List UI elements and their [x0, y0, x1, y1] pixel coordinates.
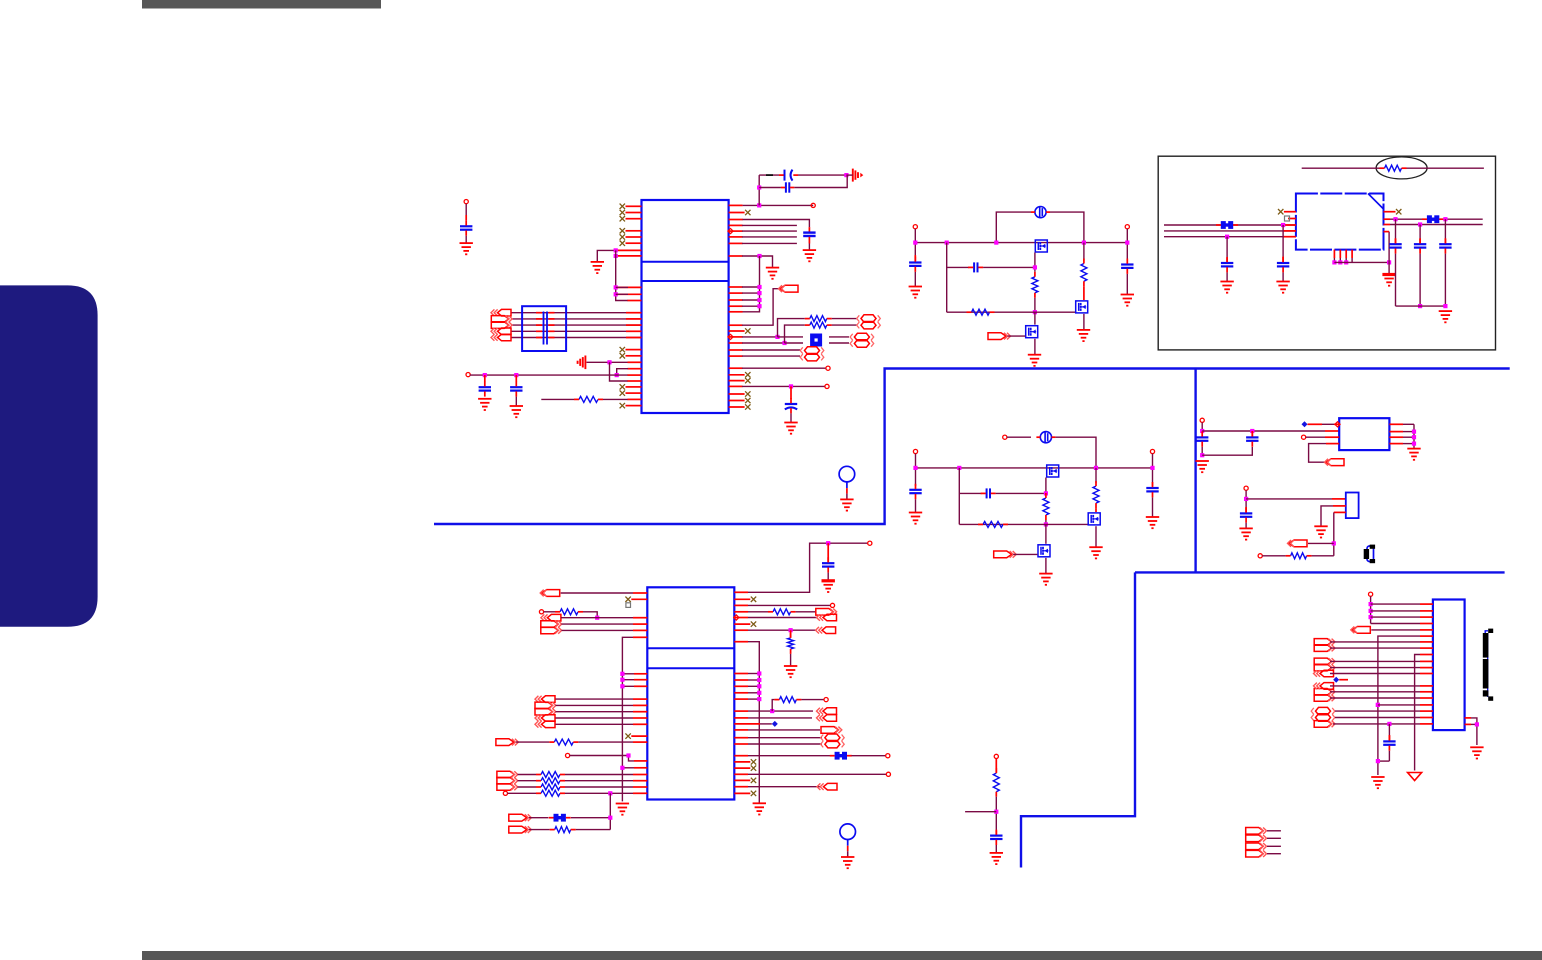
connector	[817, 708, 837, 715]
terminal	[566, 753, 570, 757]
wire wire	[748, 755, 830, 757]
capacitor C13	[981, 488, 996, 498]
wire wire	[965, 811, 996, 813]
ground	[990, 853, 1003, 864]
wire wire	[617, 369, 628, 375]
wire wire	[561, 592, 633, 594]
capacitor C5	[803, 233, 815, 244]
wire wire	[748, 629, 816, 631]
wire wire	[1267, 853, 1281, 855]
capacitor C12	[1146, 482, 1158, 497]
lead	[1083, 286, 1085, 300]
junction	[607, 360, 611, 364]
junction	[757, 697, 761, 701]
off-page flag	[540, 590, 560, 597]
wire wire	[748, 673, 759, 675]
wire wire	[801, 699, 824, 701]
wire wire	[1413, 424, 1415, 448]
U8 pin	[1465, 723, 1471, 725]
U1 no-connect pin L1	[620, 204, 642, 209]
cap lead	[1282, 257, 1284, 263]
U2 pin	[734, 685, 748, 687]
U5 pin	[1283, 236, 1296, 238]
wire wire	[1403, 431, 1414, 433]
terminal	[868, 541, 872, 545]
junction	[1332, 541, 1336, 545]
wire wire	[1371, 623, 1420, 625]
U1 pin	[616, 293, 642, 295]
cap lead	[1245, 507, 1247, 513]
resistor R13	[1286, 553, 1312, 559]
capacitor	[1439, 238, 1451, 253]
junction	[1387, 260, 1391, 264]
wire cap row	[959, 492, 981, 494]
U8 pin	[1420, 610, 1433, 612]
capacitor C6	[785, 398, 797, 413]
junction	[1200, 429, 1204, 433]
resistor R5	[805, 322, 832, 328]
U1 no-connect pin L3	[620, 216, 642, 221]
U1 pin	[628, 380, 642, 382]
connector	[1246, 850, 1267, 857]
connector	[821, 734, 845, 741]
wire wire	[742, 342, 785, 344]
U8 pin	[1420, 704, 1433, 706]
wire wire	[748, 729, 820, 731]
black tick	[766, 174, 773, 176]
wire wire	[748, 543, 868, 592]
U1 pin	[626, 318, 642, 320]
wire wire	[748, 737, 822, 739]
wire wire	[1403, 423, 1414, 425]
connector	[1311, 714, 1335, 721]
connector U8 body	[1433, 600, 1465, 731]
U1 no-connect pin	[729, 372, 751, 377]
U1 pin	[626, 337, 642, 339]
capacitor C19	[1196, 431, 1208, 446]
capacitor C20	[1246, 431, 1258, 446]
connector	[497, 784, 518, 791]
wire wire	[742, 242, 797, 244]
U1 section line	[642, 280, 729, 282]
junction	[789, 628, 793, 632]
junction	[615, 373, 619, 377]
ground	[784, 423, 797, 434]
U5 no-connect pin	[1384, 209, 1402, 214]
wire bus wire 3	[511, 324, 642, 326]
U2 pin	[633, 717, 647, 719]
connector	[817, 783, 837, 790]
wire wire	[610, 362, 629, 381]
U8 pin	[1420, 647, 1433, 649]
connector	[535, 696, 555, 703]
resistor	[536, 772, 565, 778]
U8 pin	[1420, 629, 1433, 631]
wire U2 left power bus	[622, 637, 633, 801]
wire wire	[778, 319, 805, 337]
wire wire	[748, 685, 759, 687]
ground	[1028, 355, 1041, 366]
capacitor C21	[1240, 507, 1252, 522]
U5 pin sq	[1285, 216, 1296, 221]
U2 pin	[633, 774, 647, 776]
U2 pin	[734, 729, 748, 731]
wire wire	[785, 325, 805, 343]
wire wire	[1246, 498, 1332, 500]
U1 pin	[729, 367, 743, 369]
chassis ground	[846, 169, 863, 182]
wire wire	[1330, 685, 1420, 687]
U6 pin	[1308, 423, 1323, 425]
terminal	[824, 698, 828, 702]
wire wire	[1403, 443, 1414, 445]
U1 no-connect pin	[729, 328, 751, 333]
ground	[1039, 574, 1052, 585]
ground	[1146, 517, 1159, 528]
wire wire	[1390, 224, 1483, 226]
connector	[817, 614, 837, 621]
side tab	[0, 285, 98, 626]
junction	[757, 285, 761, 289]
wire wire	[1371, 629, 1420, 631]
filter pin marks	[536, 337, 555, 339]
U8 pin	[1420, 697, 1433, 699]
U1 pin	[628, 361, 642, 363]
U1 pin	[729, 224, 743, 226]
switch S1	[1364, 545, 1375, 564]
wire wire	[742, 292, 760, 294]
filter box	[522, 306, 566, 351]
section divider	[1135, 571, 1505, 573]
cap lead	[1444, 254, 1446, 307]
capacitor C3	[779, 170, 798, 181]
filter pin marks	[536, 318, 555, 320]
wire wire	[996, 212, 1031, 243]
wire wire	[760, 723, 772, 725]
terminal	[1369, 592, 1373, 596]
wire wire	[578, 741, 633, 743]
junction	[608, 791, 612, 795]
wire wire	[541, 398, 574, 400]
junction	[1376, 703, 1380, 707]
U2 pin	[734, 743, 748, 745]
U2 pin	[633, 786, 647, 788]
U2 pin	[634, 685, 647, 687]
off-page flag	[509, 826, 532, 833]
U2 pin	[633, 741, 647, 743]
U6 pin	[1389, 436, 1403, 438]
net stub	[772, 721, 778, 727]
ground	[1407, 449, 1420, 460]
connector	[1314, 721, 1335, 728]
U6 pin	[1389, 423, 1403, 425]
wire wire	[832, 324, 857, 326]
wire wire	[561, 617, 633, 619]
wire wire	[829, 342, 849, 344]
ground	[1382, 275, 1395, 286]
wire wire	[1245, 490, 1247, 507]
junction	[789, 384, 793, 388]
resistor R11	[1093, 481, 1099, 508]
ground	[1196, 461, 1209, 472]
wire wire	[742, 256, 773, 268]
terminal	[1125, 225, 1129, 229]
cap lead	[1152, 497, 1154, 517]
wire wire	[748, 611, 768, 613]
filter pin marks	[536, 312, 555, 314]
wire wire	[742, 349, 800, 351]
U1 no-connect pin	[620, 390, 642, 395]
capacitor	[1414, 238, 1426, 253]
wire wire	[748, 604, 830, 606]
ground	[1121, 295, 1134, 306]
wire wire	[556, 711, 634, 713]
wire bus wire 4	[511, 330, 642, 332]
current sensor U4	[1036, 432, 1055, 443]
junction	[1412, 430, 1416, 434]
U1 pin	[626, 312, 642, 314]
wire wire	[748, 698, 759, 700]
junction	[1332, 260, 1336, 264]
connector P5	[800, 347, 824, 354]
connector P6	[800, 354, 824, 361]
terminal	[811, 203, 815, 207]
res lead	[790, 654, 792, 666]
MOSFET Q1	[1035, 240, 1047, 252]
filter pin marks	[536, 324, 555, 326]
U5 pin	[1384, 231, 1390, 233]
U1 pin	[616, 286, 642, 288]
cap lead	[1395, 254, 1397, 307]
wire wire	[798, 174, 846, 176]
wire wire	[772, 700, 774, 712]
wire bus wire 5	[511, 337, 642, 339]
terminal	[830, 603, 834, 607]
wire wire	[587, 361, 629, 363]
capacitor C15	[1277, 257, 1289, 272]
wire wire	[1095, 468, 1097, 483]
current sensor U3	[1031, 207, 1050, 218]
wire wire	[794, 175, 847, 187]
U1 pin	[628, 368, 642, 370]
wire wire	[1226, 237, 1228, 258]
ground	[1239, 528, 1252, 539]
cap lead	[515, 397, 517, 406]
capacitor C1	[479, 381, 491, 396]
resistor R7	[967, 309, 995, 315]
res lead	[790, 630, 792, 637]
wire wire	[622, 679, 634, 681]
ground	[784, 666, 797, 677]
U1 no-connect pin	[729, 378, 751, 383]
U2 pin	[734, 755, 748, 757]
U2 no-connect pin	[734, 759, 756, 764]
wire bottom rail	[947, 311, 1076, 313]
U2 pin	[633, 592, 647, 594]
U1 no-connect pin	[729, 398, 751, 403]
connector J4	[491, 328, 511, 335]
U7 pin	[1334, 511, 1346, 513]
U1 pin	[729, 349, 743, 351]
off-page flag	[496, 739, 519, 746]
wire wire	[1302, 167, 1380, 169]
U1 no-connect pin	[620, 347, 642, 352]
wire bus wire 2	[511, 318, 642, 320]
connector	[541, 627, 562, 634]
U5 no-connect pin	[1278, 209, 1296, 214]
wire wire	[1083, 314, 1085, 330]
U5 bottom pin	[1351, 250, 1353, 263]
junction	[1418, 222, 1422, 226]
junction	[1044, 522, 1048, 526]
junction	[1281, 223, 1285, 227]
wire wire	[1262, 555, 1285, 557]
terminal	[913, 449, 917, 453]
wire wire	[1282, 225, 1284, 257]
junction	[1344, 260, 1348, 264]
junction	[626, 753, 630, 757]
ground	[840, 499, 853, 510]
capacitor C7	[460, 220, 472, 235]
wire wire	[518, 774, 537, 776]
U8 pin	[1420, 635, 1433, 637]
U2 pin	[633, 698, 647, 700]
wire bus wire	[1164, 224, 1296, 226]
U1 no-connect pin	[620, 353, 642, 358]
U1 pin	[729, 385, 743, 387]
cap lead	[1444, 239, 1446, 244]
U1 no-connect pin L5	[620, 234, 642, 239]
U1 pin	[729, 305, 743, 307]
IC U5 body	[1296, 194, 1384, 250]
wire wire	[778, 336, 804, 338]
resistor R4	[805, 316, 832, 322]
MOSFET Q3	[1026, 326, 1038, 338]
wire wire	[748, 679, 759, 681]
wire wire	[1378, 760, 1390, 762]
terminal	[539, 610, 543, 614]
wire wire	[622, 685, 634, 687]
footer bar	[142, 951, 1542, 960]
input marker	[734, 615, 739, 620]
connector J5	[491, 334, 511, 341]
input marker	[728, 229, 733, 234]
net stub	[1302, 421, 1308, 427]
wire wire	[1378, 704, 1420, 706]
junction	[595, 616, 599, 620]
wire wire	[1308, 542, 1334, 544]
capacitor C22	[822, 557, 834, 572]
junction	[620, 678, 624, 682]
U6 pin	[1334, 423, 1339, 425]
cap lead	[1201, 447, 1203, 455]
cap lead	[827, 543, 829, 562]
wire wire	[1403, 436, 1414, 438]
wire wire	[742, 367, 826, 369]
ground	[753, 803, 766, 814]
terminal	[994, 754, 998, 758]
wire wire	[742, 236, 797, 238]
cap lead	[1126, 274, 1128, 295]
U2 pin	[633, 723, 647, 725]
U2 pin	[634, 673, 647, 675]
resistor R21	[993, 768, 999, 797]
connector P1	[857, 315, 881, 322]
U1 no-connect pin L4	[620, 228, 642, 233]
wire wire	[742, 224, 797, 226]
capacitor C23	[990, 830, 1002, 845]
MOSFET Q2	[1076, 301, 1088, 313]
junction	[1033, 310, 1037, 314]
U6 pin	[1325, 430, 1339, 432]
resistor R6	[1032, 272, 1038, 298]
U8 pin	[1420, 710, 1433, 712]
capacitor C9	[1121, 259, 1133, 274]
junction	[1418, 304, 1422, 308]
junction	[1044, 491, 1048, 495]
junction	[620, 766, 624, 770]
U5 bottom pin	[1339, 250, 1341, 263]
wire crystal bottom wire	[759, 187, 781, 189]
cap lead	[1419, 239, 1421, 244]
junction	[1369, 615, 1373, 619]
wire wire	[1034, 312, 1036, 324]
resistor	[536, 778, 565, 784]
wire wire	[1152, 454, 1154, 486]
U2 no-connect pin	[734, 765, 756, 770]
junction	[620, 672, 624, 676]
ground	[1371, 777, 1384, 788]
section divider	[434, 369, 1510, 525]
wire wire	[1050, 212, 1084, 243]
wire wire	[829, 336, 849, 338]
terminal	[826, 366, 830, 370]
ground	[460, 243, 473, 254]
wire wire	[1095, 526, 1097, 547]
connector	[535, 708, 556, 715]
U8 pin	[1420, 673, 1433, 675]
capacitor C8	[909, 257, 921, 272]
connector	[1246, 828, 1267, 835]
wire wire	[1267, 837, 1281, 839]
connector	[816, 609, 837, 616]
wire wire	[570, 756, 634, 761]
off-page flag	[509, 814, 532, 821]
wire wire	[748, 710, 813, 712]
junction	[826, 541, 830, 545]
junction	[1412, 442, 1416, 446]
ground	[909, 513, 922, 524]
U1 no-connect pin L2	[620, 210, 642, 215]
wire crystal top wire	[759, 174, 779, 176]
capacitor C24	[1383, 735, 1395, 750]
terminal	[1244, 486, 1248, 490]
ground	[510, 406, 523, 417]
wire wire	[1334, 261, 1389, 263]
junction	[1369, 609, 1373, 613]
terminal	[1200, 418, 1204, 422]
junction	[614, 285, 618, 289]
U1 pin	[628, 374, 642, 376]
U5 pin	[1283, 224, 1296, 226]
wire wire	[1267, 845, 1281, 847]
U2 pin	[633, 780, 647, 782]
wire wire	[609, 793, 611, 829]
wire wire	[565, 786, 633, 788]
connector	[1246, 835, 1267, 842]
connector P2	[857, 322, 881, 329]
output marker	[728, 334, 733, 339]
